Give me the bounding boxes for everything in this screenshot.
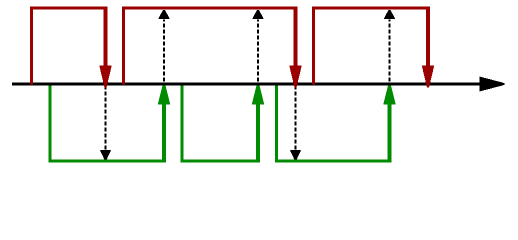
wire: green up-arrow 3 (x=389.5) [383,84,396,162]
wire: red down-arrow 2 (x=295.5) [289,8,302,88]
wire: green up-arrow 2 (x=258) [252,84,265,162]
wire: red pulse 1 (high) [32,8,108,85]
wire: dashed transition t1 down (x=105.5) [100,86,111,160]
wire: green pulse 2 (low) [182,84,260,161]
wire: red pulse 2 (high) [124,8,298,85]
wire: red pulse 3 (high) [314,8,431,85]
wire: green pulse 3 (low) [277,84,392,161]
wire: time axis [12,77,505,92]
wire: dashed transition t2 up (x=164) [158,10,169,82]
wire: dashed transition t3 up (x=258) [252,10,263,82]
wire: green pulse 1 (low) [50,84,166,161]
wire: green up-arrow 1 (x=164) [158,84,171,162]
wire: red down-arrow 3 (x=428) [422,8,435,88]
wire: dashed transition t4 down (x=295.5) [290,86,301,160]
wire: red down-arrow 1 (x=105) [99,8,112,88]
wire: dashed transition t5 up (x=389.5) [384,10,395,82]
